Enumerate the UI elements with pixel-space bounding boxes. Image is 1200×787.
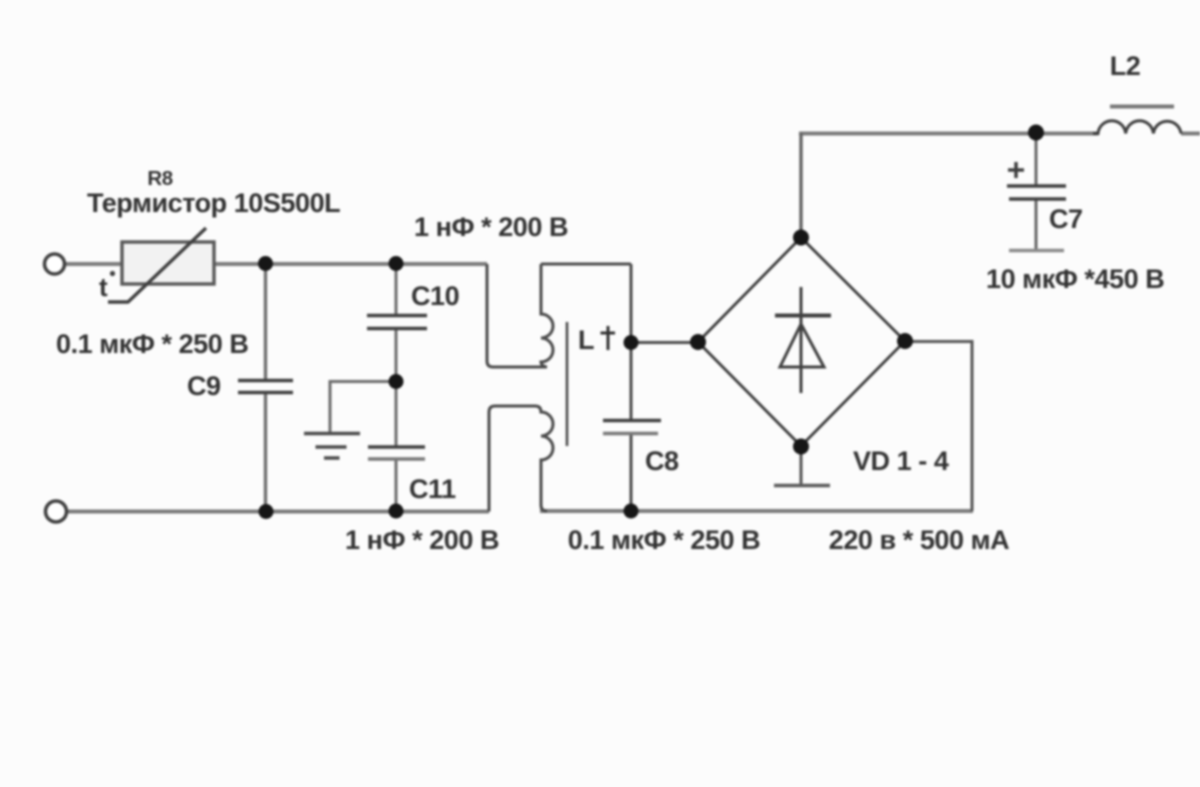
svg-text:C9: C9 [187,371,221,401]
svg-text:C10: C10 [411,281,459,311]
svg-text:0.1 мкФ * 250 В: 0.1 мкФ * 250 В [568,525,760,555]
svg-text:1 нФ * 200 В: 1 нФ * 200 В [414,212,568,242]
svg-text:L: L [578,325,594,355]
svg-text:C11: C11 [409,474,456,504]
svg-text:C8: C8 [645,446,679,476]
svg-text:0.1 мкФ * 250 В: 0.1 мкФ * 250 В [56,329,248,359]
svg-text:L2: L2 [1110,51,1141,81]
svg-text:C7: C7 [1049,204,1083,234]
svg-text:1 нФ * 200 В: 1 нФ * 200 В [345,525,499,555]
svg-text:t: t [99,272,108,302]
svg-text:220 в * 500 мА: 220 в * 500 мА [829,525,1009,555]
svg-text:Термистор 10S500L: Термистор 10S500L [87,188,340,218]
svg-text:10 мкФ *450 В: 10 мкФ *450 В [986,264,1164,294]
svg-text:VD 1 - 4: VD 1 - 4 [853,446,949,476]
svg-text:R8: R8 [147,167,172,190]
